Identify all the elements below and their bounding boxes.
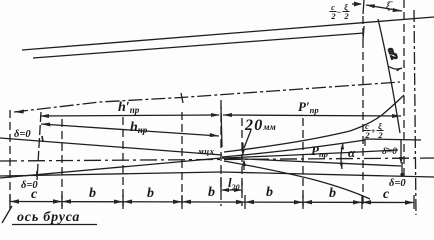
dimension xi bar — [366, 5, 402, 11]
steep frog axis line S — [378, 19, 400, 133]
dimension h_pr line — [41, 124, 219, 136]
20mm gap arrows — [242, 143, 244, 152]
bottom ticks — [10, 195, 414, 209]
l20 dimension — [221, 177, 242, 193]
vertical guide x=62 — [61, 119, 63, 206]
lower-left rail line R3 flat — [0, 172, 221, 176]
vertical guide x=303 — [302, 118, 304, 206]
slanted tick — [2, 206, 12, 223]
bottom arrows — [10, 199, 414, 204]
dash-dot construction line D1 with left arrow — [14, 82, 400, 112]
underline — [12, 224, 97, 226]
dimension c/2 - xi/2 label — [330, 2, 349, 21]
scan noise overlay — [0, 0, 1, 1]
vertical guide x=415 dash-dot — [414, 10, 416, 215]
fan line F3 — [222, 150, 398, 158]
vertical guide x=404 — [403, 0, 405, 180]
angle arc alpha — [341, 143, 343, 169]
tick on D1 — [181, 93, 183, 103]
vertical guide x=40 (delta section) — [37, 112, 41, 180]
tick at end of T2 — [363, 26, 364, 40]
vertical guide x=242 — [241, 118, 243, 206]
fan line F4 — [222, 158, 401, 166]
vertical guide x=10 — [9, 110, 11, 207]
centerline dash-dot — [0, 158, 434, 161]
lower wing curve C2 — [224, 161, 370, 199]
20mm leader — [244, 130, 251, 148]
wing rail curve C1 upper right — [224, 95, 404, 152]
bottom dimension line — [10, 202, 414, 203]
vertical guide x=221 (MCK) — [220, 100, 222, 206]
fan line F2 — [222, 140, 365, 157]
tick at x=221 for h dims — [221, 107, 222, 147]
dimension h'pr line — [40, 115, 219, 116]
c/2+xi/2 fraction label — [364, 121, 383, 140]
vertical guide x=363 — [362, 16, 364, 206]
delta tick upper left — [42, 136, 43, 142]
dimension P'pr line — [223, 115, 401, 116]
bracket for c/2+xi/2 — [365, 139, 421, 146]
vertical guide x=182 — [181, 112, 183, 206]
top rail line T2 — [33, 33, 364, 58]
right bracket tick lower — [401, 162, 403, 176]
dimension line c/2-xi/2 — [352, 3, 361, 5]
delta tick lower left — [36, 171, 38, 177]
lower-left rail line R2 rising to MCK — [0, 158, 221, 178]
upper-left rail line R1 — [0, 138, 222, 155]
tick — [363, 0, 364, 14]
bottom labels c b b b b b c — [31, 185, 390, 202]
fan line F5 lower flat — [221, 172, 434, 177]
angle arc for alpha/2 — [388, 66, 402, 69]
vertical guide x=123 — [122, 117, 124, 206]
top rail line T1 — [22, 17, 434, 50]
